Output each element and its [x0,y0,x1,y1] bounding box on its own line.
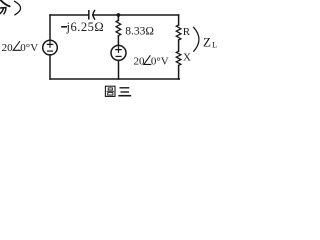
svg-text:20: 20 [134,56,146,68]
svg-text:X: X [183,51,191,63]
svg-text:L: L [212,40,217,50]
svg-text:8.33Ω: 8.33Ω [125,25,154,37]
reactance X zigzag [176,51,181,65]
node junction dot [117,13,121,17]
wire between R and X [178,40,180,51]
wire bottom rail [50,78,179,80]
brace for ZL [194,27,199,51]
V1 plus sign [47,42,52,47]
svg-text:0°V: 0°V [20,42,38,54]
wire right rail top [178,15,180,25]
svg-text:20: 20 [2,42,14,54]
text fragment 分 (clipped at left edge) [0,1,10,14]
svg-text:R: R [183,26,191,38]
svg-text:0°V: 0°V [151,56,169,68]
label ZL [203,34,217,49]
label R [183,26,191,38]
voltage source V1 circle [43,40,58,55]
capacitor -j6.25 ohm : curved plate [93,11,95,20]
wire middle branch top [117,15,119,20]
caption 三 [119,88,130,96]
wire middle branch bottom [118,60,120,79]
capacitor -j6.25 ohm : flat plate [88,11,90,19]
V1 minus sign [48,50,53,52]
label 20 angle 0 V (left source) [2,42,39,54]
svg-text:j6.25Ω: j6.25Ω [66,20,105,34]
wire left rail lower [49,55,51,79]
V2 minus sign [116,55,121,57]
wire resistor to source V2 [117,36,119,46]
voltage source V2 circle [111,45,126,60]
resistor R zigzag [176,25,181,40]
text fragment ) full-width paren [15,1,21,15]
label -j6.25 ohm [66,20,105,34]
label X [183,51,191,63]
wire capacitor to top-right corner [93,14,179,16]
caption 圖 [105,86,115,96]
wire left rail upper [49,15,51,40]
label -j6.25 ohm minus sign [62,26,66,28]
label 20 angle 0 V (middle source) [134,56,169,68]
wire top-left segment [50,14,88,16]
svg-text:Z: Z [203,34,211,49]
resistor 8.33 ohm zigzag [116,20,121,35]
angle symbol (left label) [13,42,20,51]
V2 plus sign [116,47,121,52]
wire right rail bottom [178,65,180,79]
label 8.33 ohm [125,25,154,37]
angle symbol (middle label) [144,56,151,65]
